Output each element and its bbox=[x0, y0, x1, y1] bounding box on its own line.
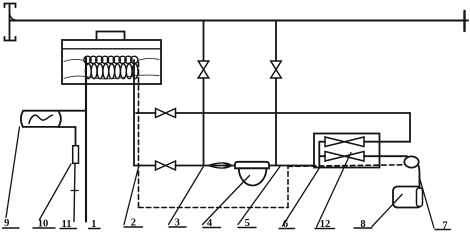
right riser corner down to fan-coil bbox=[364, 113, 410, 142]
coil right leg solid pipe bbox=[133, 60, 135, 166]
underline 4 bbox=[203, 227, 221, 229]
svg-text:5: 5 bbox=[245, 218, 250, 229]
svg-text:8: 8 bbox=[360, 219, 365, 230]
fan-coil top bowtie 12 bbox=[325, 137, 364, 147]
leader line 5 bbox=[238, 167, 280, 225]
underline 5 bbox=[238, 227, 256, 229]
pipe from pump down to motor bbox=[418, 166, 421, 189]
fan-coil bottom bowtie bbox=[325, 152, 364, 162]
svg-text:9: 9 bbox=[4, 218, 9, 229]
upper connecting pipe (valve 3 line) bbox=[136, 112, 410, 114]
leader line 4 bbox=[203, 176, 250, 225]
component 9 capsule body bbox=[21, 111, 23, 127]
leader line 8 bbox=[372, 195, 402, 227]
tank top cap bbox=[97, 32, 125, 41]
tank T (water tank) bbox=[62, 40, 161, 84]
underline 10 bbox=[33, 227, 55, 229]
drain line below filter bbox=[74, 163, 75, 221]
dome bowl bbox=[239, 168, 267, 185]
svg-text:1: 1 bbox=[91, 219, 96, 230]
underline 2 bbox=[124, 226, 143, 228]
valve V-left-bottom bowtie bbox=[156, 161, 176, 170]
pump 7 ellipse bbox=[404, 156, 418, 167]
riser pipe 1 (coil left leg down) bbox=[85, 58, 87, 222]
junction fillet bbox=[10, 14, 17, 20]
valve A hourglass bbox=[198, 61, 209, 78]
squiggle inside component 9 bbox=[29, 115, 53, 123]
link from component 9 down to filter bbox=[59, 127, 76, 146]
lower connecting pipe bbox=[134, 165, 315, 167]
heating coil inside tank bbox=[84, 56, 138, 79]
svg-text:10: 10 bbox=[38, 219, 49, 230]
underline 8 bbox=[354, 227, 372, 229]
dashed sensing line from tank bbox=[139, 62, 405, 208]
right end flange bbox=[463, 11, 465, 31]
motor unit 8 body bbox=[393, 187, 422, 208]
valve B hourglass bbox=[271, 61, 282, 78]
vertical branch pipe A bbox=[203, 21, 205, 166]
svg-text:3: 3 bbox=[175, 218, 180, 229]
svg-text:7: 7 bbox=[442, 221, 447, 232]
fan-coil left connector bbox=[319, 142, 325, 168]
flow lens 3 on lower pipe bbox=[208, 163, 232, 168]
top supply pipe bbox=[10, 20, 469, 22]
underline 11 bbox=[60, 228, 77, 230]
leader line 7 bbox=[419, 176, 434, 228]
leader line 10 bbox=[40, 164, 72, 220]
underline 12 bbox=[315, 228, 335, 230]
tank inner top line bbox=[62, 48, 161, 50]
underline 3 bbox=[169, 226, 186, 228]
pipe header to expansion assembly bbox=[23, 110, 86, 112]
underline 9 bbox=[3, 227, 20, 229]
leader line 12 bbox=[317, 153, 352, 228]
svg-text:12: 12 bbox=[320, 219, 331, 230]
water wavy lines bbox=[64, 58, 159, 78]
left bottom flange cap bbox=[5, 37, 16, 41]
vertical branch pipe B bbox=[275, 21, 277, 166]
svg-text:11: 11 bbox=[62, 219, 72, 230]
underline 7 bbox=[435, 229, 451, 231]
flow arrow bbox=[224, 163, 232, 168]
motor capsule bbox=[417, 188, 423, 207]
svg-text:6: 6 bbox=[283, 219, 288, 230]
leader line 6 bbox=[283, 167, 321, 226]
valve V-left-top bowtie bbox=[156, 109, 176, 118]
svg-text:2: 2 bbox=[131, 218, 136, 229]
leader line 9 bbox=[6, 127, 20, 218]
leader line 3 bbox=[169, 166, 205, 225]
left pipe stub vertical bbox=[9, 4, 11, 41]
leader line 2 bbox=[124, 169, 138, 225]
fan-coil unit box 6 bbox=[314, 134, 380, 168]
underline 1 bbox=[89, 228, 101, 230]
svg-text:4: 4 bbox=[207, 218, 213, 229]
dome component 4/5 body bbox=[235, 162, 269, 169]
fan-coil right outlet to pump bbox=[364, 155, 407, 157]
left top flange cap bbox=[5, 4, 16, 8]
tick on drain line bbox=[71, 190, 78, 192]
filter capsule 10/11 bbox=[73, 146, 79, 164]
underline 6 bbox=[279, 228, 295, 230]
